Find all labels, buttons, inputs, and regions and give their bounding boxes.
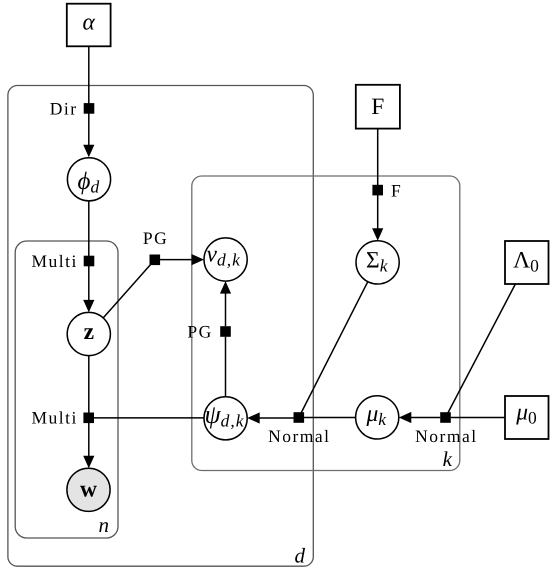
node F box: [356, 85, 400, 129]
factor Normal left: [294, 412, 305, 423]
factor Normal right: [440, 412, 451, 423]
arrowhead into w: [83, 456, 94, 469]
arrow PG upper to v: [155, 259, 193, 261]
svg-text:Normal: Normal: [268, 426, 330, 446]
node mu_0 box: [505, 396, 549, 439]
wire z to Multi lower: [88, 356, 90, 418]
svg-text:Dir: Dir: [50, 98, 78, 118]
node phi_d circle: [67, 158, 110, 201]
svg-text:PG: PG: [143, 228, 168, 248]
wire Sigma_k to Normal left: [299, 282, 368, 418]
arrowhead into v left: [192, 254, 205, 265]
svg-text:d: d: [295, 544, 306, 568]
factor F: [372, 185, 383, 196]
wire Normal right to Lambda_0: [446, 284, 516, 418]
factor PG upper: [150, 255, 161, 266]
arrowhead into v bottom: [220, 281, 231, 294]
node psi_dk circle: [204, 397, 247, 440]
arrowhead into phi_d: [83, 145, 94, 158]
arrowhead into Sigma_k: [372, 228, 383, 241]
node mu_k circle: [356, 396, 399, 439]
wire Normal left to mu_k: [304, 417, 356, 419]
arrow PG lower to v bottom: [225, 293, 227, 327]
plate k: [192, 176, 460, 471]
wire F box to Sigma_k: [377, 129, 379, 230]
plate d: [8, 86, 313, 567]
wire phi_d to z: [88, 201, 90, 301]
arrow Normal right to mu_k: [410, 417, 440, 419]
svg-text:α: α: [83, 9, 96, 35]
arrowhead into z: [83, 300, 94, 313]
wire z to PG upper: [103, 260, 155, 318]
svg-text:k: k: [443, 447, 453, 471]
svg-text:n: n: [99, 513, 110, 537]
svg-text:z: z: [84, 319, 94, 345]
svg-text:F: F: [371, 94, 384, 120]
node z circle: [67, 312, 110, 355]
wire Normal right to mu_0: [451, 417, 505, 419]
plate n: [15, 241, 118, 538]
arrowhead into mu_k right: [399, 412, 412, 423]
node w circle: [67, 468, 110, 511]
svg-text:w: w: [80, 477, 97, 503]
wire PG lower to psi top: [225, 337, 227, 397]
arrow Normal left to psi: [259, 417, 294, 419]
arrow Multi lower to w: [88, 418, 90, 457]
node Lambda_0 box: [505, 241, 549, 284]
wire alpha to phi_d: [88, 46, 90, 146]
svg-text:PG: PG: [187, 322, 212, 342]
node alpha box: [67, 4, 111, 47]
factor PG lower: [220, 326, 231, 337]
svg-text:Multi: Multi: [31, 251, 77, 271]
node v_dk circle: [204, 238, 247, 281]
svg-text:Multi: Multi: [31, 408, 77, 428]
svg-text:F: F: [391, 180, 402, 200]
factor Dir: [84, 103, 95, 114]
wire Multi lower to psi: [89, 417, 204, 419]
svg-text:Normal: Normal: [415, 426, 477, 446]
factor Multi lower: [83, 413, 94, 424]
arrowhead into psi right: [247, 412, 260, 423]
factor Multi upper: [84, 256, 95, 267]
node Sigma_k circle: [356, 241, 399, 284]
